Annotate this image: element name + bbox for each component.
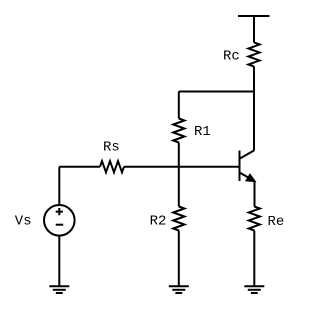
ground (Re) <box>244 286 264 293</box>
wire R2 to ground <box>178 231 180 287</box>
wire Rs to base <box>124 166 240 168</box>
svg-text:R2: R2 <box>150 214 167 230</box>
resistor Rc <box>248 43 259 67</box>
resistor R2 <box>173 207 184 231</box>
transistor Q1 emitter arrow <box>247 175 255 181</box>
wire Re to ground <box>253 231 255 287</box>
svg-text:Re: Re <box>268 214 285 230</box>
svg-text:Vs: Vs <box>15 213 32 229</box>
transistor Q1 base bar <box>239 151 241 182</box>
ground (Vs) <box>49 286 69 293</box>
ground (R2) <box>169 286 189 293</box>
wire VCC stub to Rc <box>253 16 255 43</box>
svg-text:Rc: Rc <box>223 48 240 64</box>
wire R1 to R2 <box>178 143 180 207</box>
wire R1 branch down <box>178 92 180 119</box>
svg-text:R1: R1 <box>194 124 211 140</box>
resistor R1 <box>173 119 184 143</box>
plus sign <box>56 208 63 215</box>
wire Vs top <box>58 167 60 205</box>
wire Rc to collector <box>253 67 255 151</box>
wire Vs bottom to ground <box>58 236 60 286</box>
resistor Rs <box>100 161 124 172</box>
resistor Re <box>249 207 260 231</box>
minus sign <box>56 224 64 226</box>
transistor Q1 collector diagonal <box>240 151 255 159</box>
wire emitter to Re <box>254 181 256 207</box>
power rail bar (VCC) <box>238 15 270 17</box>
svg-text:Rs: Rs <box>103 139 120 155</box>
source Vs circle <box>44 205 75 236</box>
wire node to R1 top <box>179 91 254 93</box>
transistor Q1 emitter diagonal <box>240 173 255 182</box>
wire Vs corner to Rs <box>59 166 100 168</box>
